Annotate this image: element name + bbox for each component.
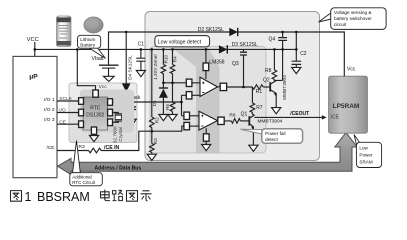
- resistor R7: [251, 87, 253, 103]
- wire VCC stub: [34, 42, 36, 56]
- svg-text:Vcc: Vcc: [347, 67, 356, 73]
- svg-text:I/O 3: I/O 3: [44, 117, 55, 123]
- svg-text:R10: R10: [164, 55, 169, 64]
- address/data bus arrow: [58, 133, 358, 175]
- wire comparator input: [151, 128, 153, 132]
- inner detect panel: [150, 47, 266, 154]
- svg-text:Additional: Additional: [72, 174, 91, 179]
- pin RTC Vcc: [93, 90, 99, 97]
- pin U1A out: [220, 83, 226, 90]
- ground battery: [104, 76, 115, 81]
- pin U1B gnd: [203, 134, 209, 141]
- wire reference node: [163, 82, 186, 84]
- pin RTC X2: [108, 109, 113, 116]
- svg-text:Battery: Battery: [80, 43, 96, 48]
- svg-text:RTC Circuit: RTC Circuit: [72, 180, 95, 185]
- pin RTC SCLK: [79, 98, 84, 105]
- svg-text:/CE: /CE: [47, 145, 55, 151]
- svg-text:D3 SK12SL: D3 SK12SL: [232, 42, 258, 48]
- svg-text:μP: μP: [29, 74, 38, 81]
- outer circuit panel: [145, 12, 320, 161]
- svg-text:Lithium: Lithium: [80, 37, 95, 42]
- svg-text:detect: detect: [265, 137, 278, 142]
- callout voltage sensing: [319, 13, 332, 23]
- op-amp U1B: [199, 111, 218, 130]
- svg-text:Low: Low: [359, 145, 368, 150]
- LP5RAM chip: [329, 76, 368, 133]
- svg-text:Voltage sensing &: Voltage sensing &: [334, 10, 372, 15]
- wire battery to ground: [108, 68, 110, 76]
- RTC DS1302 chip: [83, 97, 108, 130]
- svg-text:1.20V Zener: 1.20V Zener: [153, 54, 158, 80]
- wire /CE IN to comparator: [101, 126, 184, 150]
- svg-text:Power fail: Power fail: [265, 131, 286, 136]
- svg-text:/CE: /CE: [331, 114, 340, 120]
- ground Q2: [272, 108, 281, 114]
- resistor R3 lower: [151, 131, 153, 143]
- pin RTC I/O: [79, 109, 84, 116]
- svg-text:CE: CE: [59, 119, 66, 125]
- callout lithium battery: [89, 48, 106, 59]
- svg-text:I/O: I/O: [59, 108, 66, 114]
- wire SCLK: [57, 100, 79, 102]
- svg-text:Vbatt: Vbatt: [92, 56, 105, 62]
- svg-text:Q2: Q2: [263, 77, 270, 83]
- coin cell photo: [84, 17, 103, 33]
- svg-text:LP5RAM: LP5RAM: [333, 103, 360, 110]
- svg-text:circuit: circuit: [334, 22, 347, 27]
- wire RTC ground: [93, 134, 95, 135]
- svg-text:SRAM: SRAM: [359, 159, 372, 164]
- ground R3: [147, 154, 156, 160]
- wire battery rail: [109, 32, 345, 76]
- callout power fail detect: [241, 129, 263, 134]
- callout shadow wedge: [169, 46, 220, 153]
- svg-text:I/O 2: I/O 2: [44, 107, 55, 113]
- resistor R3 series: [89, 148, 102, 153]
- svg-text:R3: R3: [153, 138, 158, 144]
- svg-text:I/O 1: I/O 1: [44, 97, 55, 103]
- ground C3: [127, 119, 136, 125]
- caption: [11, 191, 22, 202]
- ground RTC: [89, 136, 98, 142]
- wire D4 column: [125, 32, 127, 102]
- svg-text:D2 SK12SL: D2 SK12SL: [198, 27, 224, 33]
- capacitor C2: [295, 32, 297, 61]
- ground Q1: [249, 145, 258, 151]
- resistor R5: [172, 83, 174, 102]
- svg-text:Low voltage detect: Low voltage detect: [158, 39, 202, 45]
- wire Vbak jog to opamps: [182, 95, 187, 116]
- pin RTC gnd2: [108, 119, 113, 126]
- pin RTC gnd: [91, 127, 96, 134]
- RTC chip shading: [80, 90, 134, 133]
- resistor R10: [162, 49, 164, 64]
- wire Vbak: [112, 101, 181, 103]
- svg-text:Address / Data Bus: Address / Data Bus: [95, 165, 142, 171]
- lithium cell photo: [57, 16, 72, 47]
- svg-text:/CEOUT: /CEOUT: [290, 111, 309, 117]
- svg-text:Q3: Q3: [232, 61, 239, 67]
- ground D1: [159, 115, 168, 121]
- svg-text:LM358: LM358: [209, 60, 225, 66]
- wire /CE from uP: [57, 150, 89, 152]
- svg-text:Crystal: Crystal: [118, 127, 123, 141]
- callout low voltage detect: [155, 36, 210, 47]
- svg-text:SCLK: SCLK: [59, 96, 72, 102]
- svg-text:R5: R5: [165, 104, 170, 110]
- pin U1A in+: [186, 79, 192, 86]
- resistor R4: [172, 49, 174, 64]
- wire X1 to Vbak: [112, 101, 115, 103]
- svg-text:D1: D1: [152, 100, 157, 106]
- svg-text:1: 1: [25, 190, 32, 204]
- svg-text:Power: Power: [359, 152, 372, 157]
- battery cell symbol: [99, 64, 119, 66]
- svg-text:Q1: Q1: [241, 112, 248, 118]
- svg-text:battery switchover: battery switchover: [334, 16, 372, 21]
- svg-text:R2: R2: [154, 117, 159, 123]
- svg-text:Vcc: Vcc: [99, 84, 108, 90]
- resistor R2: [151, 49, 153, 117]
- wire Vcc to RTC: [77, 49, 95, 90]
- svg-text:C2: C2: [300, 51, 307, 57]
- pin U1B out: [218, 117, 224, 124]
- callout low power SRAM: [354, 135, 362, 147]
- svg-text:Q4: Q4: [269, 36, 276, 42]
- svg-text:R4: R4: [172, 56, 177, 62]
- callout additional RTC circuit: [73, 141, 81, 173]
- wire CE: [57, 123, 79, 125]
- ground U1B: [202, 145, 211, 151]
- svg-text:R8: R8: [265, 68, 272, 74]
- svg-text:R3: R3: [79, 144, 85, 150]
- svg-text:R7: R7: [256, 105, 263, 111]
- svg-text:VCC: VCC: [27, 37, 39, 43]
- svg-text:RTC: RTC: [90, 105, 101, 111]
- pin U1A in-: [186, 92, 192, 99]
- svg-text:DS1302: DS1302: [86, 113, 104, 119]
- pin U1B in+: [184, 112, 190, 119]
- pin RTC X1: [108, 99, 113, 106]
- svg-text:MMBT3904: MMBT3904: [258, 119, 283, 125]
- pin U1B in-: [184, 122, 190, 129]
- crystal Y1: [113, 113, 119, 123]
- svg-text:BBSRAM: BBSRAM: [37, 190, 90, 204]
- wire VCC rail: [35, 48, 297, 50]
- svg-text:32.768K: 32.768K: [113, 125, 118, 143]
- ground C2: [292, 67, 301, 73]
- resistor R1: [252, 85, 263, 90]
- ground R5: [168, 115, 177, 121]
- resistor R8: [273, 49, 275, 70]
- microprocessor uP: [13, 56, 57, 177]
- svg-text:D4 SK12SL: D4 SK12SL: [128, 55, 133, 80]
- svg-text:C1: C1: [138, 41, 145, 47]
- RTC sub panel: [69, 83, 137, 143]
- diode D4: [122, 83, 131, 92]
- wire I/O: [57, 112, 79, 114]
- svg-text:R1: R1: [256, 89, 263, 95]
- pin RTC CE: [79, 121, 84, 128]
- ground C1: [136, 71, 145, 77]
